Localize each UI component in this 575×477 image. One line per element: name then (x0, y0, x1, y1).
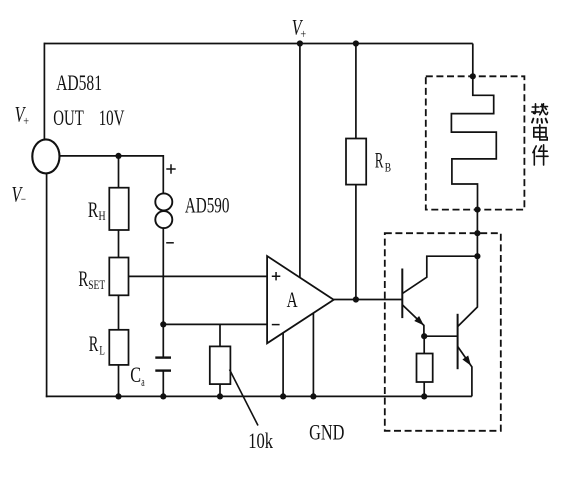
wire node to capacitor Ca (162, 324, 164, 357)
label 电 (hand-drawn glyph) (534, 125, 547, 140)
wire top V+ rail (44, 43, 472, 45)
label V+ (left source) (12, 14, 392, 452)
svg-text:C: C (130, 362, 141, 387)
wire R_H bottom to R_SET (118, 230, 120, 258)
resistor R_B (346, 139, 366, 185)
wire R_L bottom to rail (118, 365, 120, 397)
label 热 (hand-drawn glyph) (532, 104, 548, 123)
junction node rail Ca (160, 393, 166, 399)
svg-text:SET: SET (88, 277, 105, 292)
wire top rail down to heater (472, 44, 474, 77)
transistor Q1 emitter (402, 305, 424, 336)
transistor Q2 emitter (458, 346, 472, 396)
junction node at source output (115, 153, 121, 159)
op-amp ground pin wire 2 (312, 313, 314, 396)
wire emitter resistor bottom to rail (423, 382, 425, 396)
svg-text:OUT: OUT (53, 105, 84, 130)
dashed box transistor pair (385, 233, 501, 431)
op-amp - input mark (272, 324, 280, 326)
junction node at transistor box top edge (474, 230, 480, 236)
current source AD590 circle 2 (155, 211, 172, 228)
svg-text:a: a (141, 374, 145, 389)
wire minus-input node to op-amp - input (163, 323, 267, 325)
resistor R_H (109, 188, 128, 230)
dashed box heater 热电件 (426, 76, 525, 209)
op-amp ground pin wire 1 (282, 333, 284, 397)
wire bottom ground rail (46, 395, 472, 397)
svg-text:R: R (89, 331, 99, 356)
heater element meander (451, 76, 496, 209)
op-amp U1 triangle (267, 256, 334, 343)
junction node top rail / op-amp V+ (297, 40, 303, 46)
wire Q1 emitter node to Q2 base (424, 335, 457, 337)
svg-text:A: A (287, 287, 298, 312)
svg-text:L: L (99, 343, 105, 358)
svg-text:GND: GND (309, 419, 344, 444)
svg-text:+: + (23, 113, 29, 128)
pointer line for 10k label (230, 370, 259, 426)
junction node rail op-amp gnd 1 (280, 393, 286, 399)
op-amp V+ power pin wire (299, 44, 301, 278)
junction node Q1 collector tie (474, 253, 480, 259)
svg-text:R: R (78, 266, 88, 291)
svg-text:B: B (385, 160, 392, 175)
junction node R_B / op-amp output (353, 296, 359, 302)
svg-text:AD590: AD590 (185, 192, 230, 217)
label 件 (hand-drawn glyph) (533, 145, 548, 165)
AD590 - mark (166, 242, 174, 244)
svg-text:R: R (375, 148, 384, 173)
svg-text:10V: 10V (99, 105, 125, 130)
transistor Q2 emitter arrow (462, 356, 471, 366)
junction node rail R_L (115, 393, 121, 399)
junction node Q1 emitter / Q2 base (421, 333, 427, 339)
wire heater bottom down to transistors (458, 210, 478, 327)
junction node minus input (160, 321, 166, 327)
capacitor Ca plate top (155, 356, 171, 358)
wire op-amp output to Q1 base (334, 299, 403, 301)
current source AD590 circle 1 (155, 193, 172, 210)
junction node heater bottom (474, 207, 480, 213)
voltage source AD581 output terminal circle (32, 139, 59, 173)
wire node to emitter resistor (423, 336, 425, 353)
resistor 10k (210, 346, 231, 384)
transistor Q1 emitter arrow (414, 316, 424, 325)
op-amp + input mark (166, 164, 280, 324)
wire 10k resistor top (219, 324, 221, 346)
potentiometer R_SET (109, 258, 128, 296)
junction node rail 10k (217, 393, 223, 399)
wire from source circle to R_H and AD590 (60, 156, 164, 194)
wire R_SET tap to op-amp + input (129, 275, 268, 277)
wire R_B top (355, 44, 357, 139)
transistor Q2 base bar (457, 314, 459, 369)
svg-text:10k: 10k (248, 428, 273, 453)
svg-text:−: − (21, 192, 26, 207)
capacitor Ca plate bottom (155, 369, 171, 371)
resistor R_L (109, 330, 128, 365)
svg-text:H: H (99, 208, 106, 223)
wire left vertical from circle to ground rail (46, 173, 48, 397)
resistor R (emitter) (417, 354, 433, 383)
transistor Q1 base bar (401, 269, 403, 319)
junction node rail op-amp gnd 2 (310, 393, 316, 399)
junction node rail emitter resistor (421, 393, 427, 399)
wire Ca bottom to rail (162, 371, 164, 397)
svg-text:R: R (88, 197, 99, 222)
wire 10k bottom to rail (219, 384, 221, 396)
wire left vertical from top rail to source circle (43, 43, 45, 140)
svg-text:AD581: AD581 (56, 70, 102, 95)
transistor Q1 collector (402, 256, 477, 293)
junction node heater top (470, 73, 476, 79)
junction node top rail / R_B (353, 40, 359, 46)
wire R_B bottom to op-amp output (355, 185, 357, 300)
AD590 + mark (166, 164, 175, 173)
svg-text:+: + (300, 26, 306, 41)
wire R_SET bottom to R_L (118, 295, 120, 330)
wire AD590 bottom to minus-input node (162, 228, 164, 324)
wire R_H top (118, 156, 120, 188)
